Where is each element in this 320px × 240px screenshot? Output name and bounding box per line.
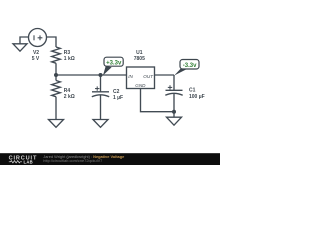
wire to right ground [173, 112, 175, 118]
resistor R4 [52, 81, 61, 97]
svg-text:+3.3v: +3.3v [106, 61, 122, 67]
wire node to U1 IN [56, 74, 127, 76]
capacitor C1 plus sign [168, 85, 172, 89]
svg-text:1 kΩ: 1 kΩ [64, 56, 75, 62]
svg-text:C1: C1 [189, 88, 196, 94]
wire C1 top lead [173, 75, 175, 90]
wire C1 bottom lead [173, 94, 175, 112]
capacitor C2 [92, 91, 109, 93]
wire U1 GND pin [141, 89, 175, 112]
node junction dot C1/GND [172, 110, 176, 114]
wire C2 bottom lead [100, 95, 102, 120]
svg-text:LAB: LAB [24, 159, 34, 164]
svg-text:-3.3v: -3.3v [183, 63, 197, 69]
node junction dot R3/R4 [54, 73, 58, 77]
capacitor C1 [166, 89, 183, 91]
svg-text:2 kΩ: 2 kΩ [64, 94, 75, 100]
svg-text:http://circuitlab.com/cne72qck: http://circuitlab.com/cne72qckuiV7 [43, 158, 102, 163]
wire V2 to R3 [47, 37, 57, 47]
svg-text:GND: GND [135, 83, 146, 88]
ground (below R4) [49, 120, 64, 128]
svg-text:5 V: 5 V [32, 56, 40, 62]
wire C2 top lead [100, 75, 102, 92]
svg-text:1 µF: 1 µF [113, 95, 123, 101]
regulator U1 7805 box [127, 67, 155, 89]
wire R3 to node [55, 63, 57, 75]
svg-text:100 µF: 100 µF [189, 94, 205, 100]
capacitor C2 plus sign [95, 86, 99, 90]
svg-text:OUT: OUT [143, 74, 154, 79]
ground (left of V2) [13, 44, 27, 51]
ground (bottom right) [167, 117, 182, 125]
node flag +3.3v [103, 57, 123, 75]
resistor R3 [52, 47, 61, 63]
footer logo resistor squiggle [9, 161, 22, 163]
svg-text:7805: 7805 [134, 56, 145, 62]
wire V2 left lead to ground [20, 37, 29, 44]
ground (below C2) [93, 120, 108, 128]
footer bar [0, 153, 220, 165]
svg-text:IN: IN [128, 74, 133, 79]
wire node to R4 [55, 75, 57, 81]
node junction dot C2 tap [99, 73, 103, 77]
voltage source V2 [29, 29, 47, 47]
wire R4 to ground [55, 97, 57, 120]
node flag -3.3v [174, 60, 199, 76]
wire U1 OUT [155, 74, 175, 76]
